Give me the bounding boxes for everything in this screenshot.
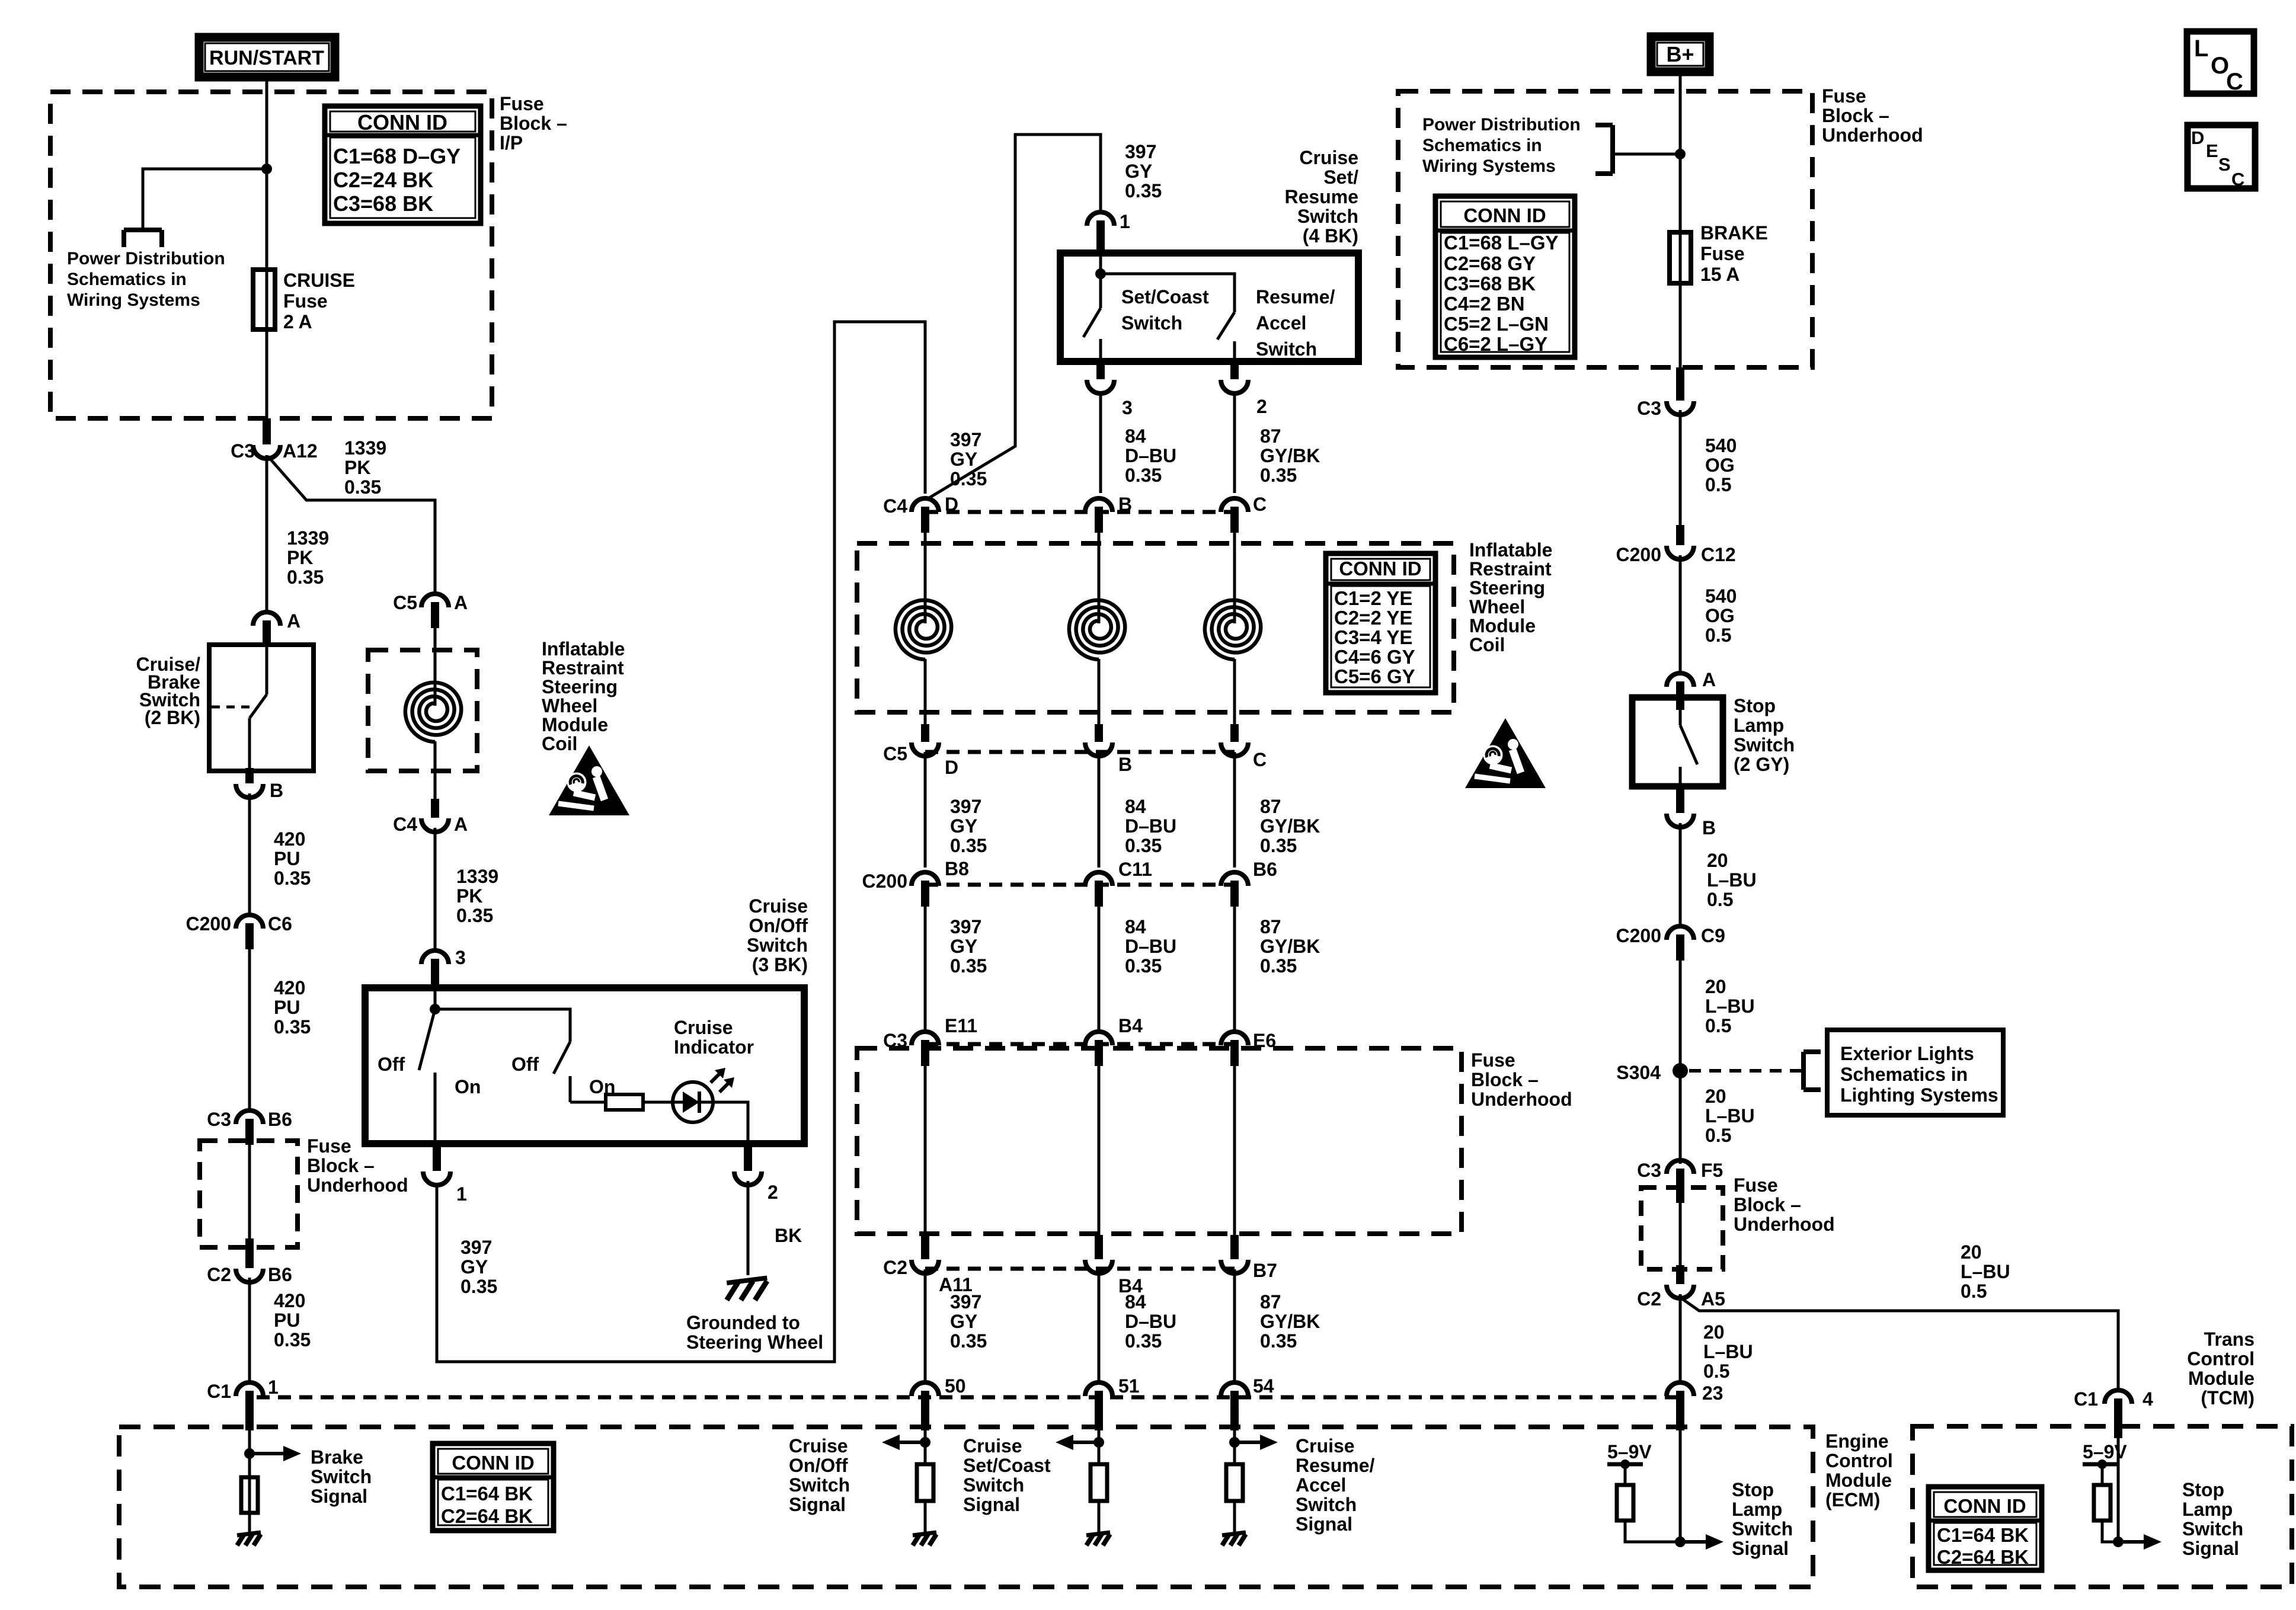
coil left wire lower (434, 741, 437, 800)
svg-text:2: 2 (768, 1182, 778, 1203)
svg-text:Stop: Stop (1734, 695, 1776, 716)
connector 2 (resume/accel) (1221, 380, 1248, 393)
wire B through fuse block (1098, 1066, 1101, 1236)
svg-text:Coil: Coil (542, 733, 577, 754)
svg-text:PU: PU (274, 1310, 300, 1331)
wire C c5-c200 (1233, 752, 1236, 868)
off-page connector (power dist right) (1610, 125, 1615, 174)
coil C wire upper (1233, 533, 1236, 623)
wire B to ECM (1098, 1269, 1101, 1382)
svg-text:15 A: 15 A (1700, 264, 1739, 285)
svg-text:0.35: 0.35 (344, 476, 381, 498)
dashed box fuse block underhood (small right) (1641, 1188, 1723, 1269)
junction set/resume (1095, 268, 1106, 279)
pullup resistor tcm (2094, 1485, 2110, 1521)
svg-text:5–9V: 5–9V (2083, 1441, 2127, 1462)
splice S304 (1673, 1063, 1688, 1078)
svg-text:0.35: 0.35 (950, 955, 987, 977)
svg-text:GY/BK: GY/BK (1260, 445, 1320, 466)
svg-text:C: C (2226, 69, 2243, 95)
airbag warning triangle right (1465, 718, 1546, 788)
fuse CRUISE 2A (253, 270, 275, 329)
resume/accel switch blade (1217, 312, 1235, 340)
svg-text:Control: Control (2187, 1348, 2255, 1369)
wire F5 down (1679, 1203, 1682, 1265)
cruise on/off switch box (365, 988, 804, 1144)
svg-text:(TCM): (TCM) (2201, 1387, 2255, 1409)
svg-text:Resume/: Resume/ (1296, 1455, 1375, 1476)
svg-text:Lighting Systems: Lighting Systems (1840, 1084, 1998, 1106)
resistor brake input (241, 1477, 258, 1513)
svg-text:Lamp: Lamp (1734, 715, 1784, 736)
svg-text:C200: C200 (1616, 544, 1662, 565)
svg-text:Wheel: Wheel (1469, 596, 1525, 617)
svg-text:Fuse: Fuse (283, 290, 328, 312)
svg-text:Schematics in: Schematics in (1840, 1064, 1968, 1085)
connector C200 pin C12 (1667, 546, 1694, 559)
svg-text:B+: B+ (1666, 42, 1694, 66)
svg-text:Switch: Switch (747, 934, 808, 956)
wire B c200-c3 (1098, 907, 1101, 1031)
wire C4A down (434, 828, 437, 950)
dotted connector row C200 (925, 883, 1235, 887)
wire fuse to C3 (1679, 283, 1682, 369)
dashed actuator link (212, 706, 251, 709)
svg-text:C5: C5 (393, 592, 417, 613)
svg-text:Switch: Switch (1732, 1518, 1793, 1539)
svg-text:0.35: 0.35 (274, 868, 311, 889)
connector C5 pin A (421, 594, 449, 607)
svg-text:C6=2 L–GY: C6=2 L–GY (1444, 333, 1547, 355)
wire through fuse (266, 270, 268, 329)
svg-text:4: 4 (2142, 1388, 2153, 1410)
svg-text:B8: B8 (945, 858, 969, 879)
svg-text:Exterior Lights: Exterior Lights (1840, 1043, 1974, 1064)
wire resistor51 to gnd (1098, 1501, 1101, 1532)
svg-text:Stop: Stop (1732, 1479, 1774, 1500)
dotted connector row C4 (925, 510, 1235, 514)
svg-text:1: 1 (456, 1183, 467, 1205)
svg-text:PU: PU (274, 848, 300, 869)
svg-text:Steering: Steering (1469, 577, 1545, 598)
coil B wire upper (1098, 533, 1101, 623)
svg-text:PK: PK (456, 885, 482, 907)
svg-text:B6: B6 (1253, 859, 1277, 880)
svg-text:Wiring Systems: Wiring Systems (1422, 156, 1556, 176)
svg-text:Engine: Engine (1825, 1430, 1889, 1452)
svg-text:397: 397 (950, 429, 981, 450)
svg-text:C4: C4 (393, 814, 417, 835)
svg-text:C1: C1 (207, 1381, 231, 1402)
svg-text:Off: Off (511, 1054, 539, 1075)
connector C200 pin C11 (1085, 872, 1112, 886)
connector C3 pin F5 (1667, 1160, 1694, 1174)
ground brake input (237, 1532, 261, 1535)
svg-text:C200: C200 (186, 913, 232, 934)
svg-text:420: 420 (274, 828, 305, 850)
svg-text:PK: PK (287, 547, 313, 568)
wire to second pole (435, 1009, 570, 1042)
on/off lower contact 1 (434, 1073, 437, 1144)
junction node (261, 164, 272, 174)
connector B stop (1667, 814, 1694, 827)
svg-text:C1=68 D–GY: C1=68 D–GY (333, 144, 461, 168)
connector C3 pin E6 (1221, 1032, 1248, 1045)
svg-text:B: B (270, 780, 283, 801)
svg-text:Signal: Signal (2182, 1538, 2239, 1559)
wire C2 down (248, 1278, 251, 1381)
svg-text:Restraint: Restraint (1469, 558, 1552, 580)
ground steering wheel (727, 1278, 767, 1283)
wire resistor to LED (643, 1101, 674, 1104)
svg-text:23: 23 (1702, 1382, 1723, 1404)
dashed box Fuse Block - I/P (50, 92, 492, 418)
svg-text:Signal: Signal (1732, 1538, 1789, 1559)
svg-text:C1=68 L–GY: C1=68 L–GY (1444, 232, 1559, 254)
pullup node tcm (2097, 1459, 2107, 1469)
svg-text:F5: F5 (1701, 1160, 1723, 1181)
svg-text:L–BU: L–BU (1703, 1341, 1753, 1362)
svg-text:C1: C1 (2074, 1388, 2098, 1410)
svg-text:L–BU: L–BU (1705, 1105, 1755, 1126)
svg-text:Trans: Trans (2204, 1329, 2255, 1350)
svg-text:0.5: 0.5 (1705, 1125, 1731, 1146)
wire C through fuse block (1233, 1066, 1236, 1236)
svg-text:Block –: Block – (500, 113, 567, 134)
svg-text:Inflatable: Inflatable (542, 638, 625, 660)
off-page connector (exterior lights) (1801, 1052, 1806, 1090)
wire pin4 in TCM (2117, 1438, 2120, 1542)
junction on/off (430, 1004, 440, 1014)
svg-text:0.35: 0.35 (274, 1329, 311, 1350)
svg-text:Inflatable: Inflatable (1469, 539, 1552, 561)
svg-text:E11: E11 (945, 1015, 977, 1036)
wire to indicator resistor (570, 1101, 606, 1104)
wire branch to steering coil column (268, 456, 435, 593)
dotted connector row C5 (925, 750, 1235, 754)
svg-text:B7: B7 (1253, 1260, 1277, 1281)
airbag warning triangle left (549, 745, 629, 815)
wire B down (1679, 823, 1682, 926)
svg-text:On/Off: On/Off (789, 1455, 848, 1476)
connector ECM pin 51 (1085, 1382, 1112, 1396)
indicator resistor (606, 1094, 643, 1110)
svg-text:C4=6 GY: C4=6 GY (1334, 646, 1415, 668)
svg-text:87: 87 (1260, 425, 1281, 447)
wire D to ECM (924, 1269, 927, 1382)
connector 3 (on/off switch) (421, 950, 449, 964)
svg-text:1339: 1339 (456, 866, 498, 887)
connector C4 pin D (912, 498, 939, 512)
wire C to ECM (1233, 1269, 1236, 1382)
svg-text:GY: GY (950, 449, 977, 470)
svg-text:0.5: 0.5 (1705, 625, 1731, 646)
svg-text:84: 84 (1125, 425, 1146, 447)
connector TCM C1 pin 4 (2105, 1390, 2132, 1404)
svg-text:C200: C200 (862, 870, 908, 892)
svg-text:Stop: Stop (2182, 1479, 2224, 1500)
junction pin50 (920, 1437, 930, 1448)
wire A5 to 23 (1679, 1294, 1682, 1382)
connector 1 (set/resume switch) (1087, 212, 1114, 226)
svg-text:S: S (2218, 154, 2231, 175)
svg-text:20: 20 (1707, 850, 1728, 871)
svg-text:Switch: Switch (1296, 1494, 1357, 1515)
power feed box B+ (1651, 37, 1709, 72)
coil C spiral (1205, 600, 1261, 660)
svg-text:D–BU: D–BU (1125, 936, 1176, 957)
wire pin51 in ECM (1098, 1430, 1101, 1464)
svg-text:87: 87 (1260, 796, 1281, 817)
svg-text:CONN ID: CONN ID (1339, 558, 1421, 580)
svg-text:397: 397 (950, 796, 981, 817)
svg-text:84: 84 (1125, 1291, 1146, 1313)
svg-text:Resume/: Resume/ (1256, 286, 1335, 308)
wire C3 down to connector A (266, 455, 268, 612)
svg-text:Signal: Signal (311, 1486, 367, 1507)
svg-text:GY: GY (950, 815, 977, 837)
off-page connector symbol (power distribution) (124, 228, 162, 232)
power feed box RUN/START (199, 37, 335, 77)
svg-text:0.35: 0.35 (950, 835, 987, 856)
svg-text:Lamp: Lamp (2182, 1499, 2233, 1520)
svg-text:A: A (1702, 669, 1716, 690)
svg-text:Fuse: Fuse (1471, 1049, 1515, 1071)
arrow stop lamp signal tcm (2118, 1540, 2146, 1544)
connector 3 (set/coast) (1087, 380, 1114, 393)
wire pin3 down (1099, 393, 1102, 493)
svg-text:Control: Control (1825, 1450, 1893, 1471)
svg-text:Lamp: Lamp (1732, 1499, 1782, 1520)
svg-text:(ECM): (ECM) (1825, 1489, 1880, 1510)
svg-text:84: 84 (1125, 916, 1146, 937)
wire into on/off (434, 990, 437, 1009)
CONN ID table (fuse block I/P) (325, 106, 481, 223)
CONN ID table (coil) (1326, 553, 1435, 693)
connector C2 pin B7 (1221, 1260, 1248, 1273)
svg-text:1: 1 (1120, 211, 1130, 232)
connector ECM pin 23 (1667, 1382, 1694, 1396)
svg-text:420: 420 (274, 1290, 305, 1311)
svg-text:0.35: 0.35 (274, 1016, 311, 1038)
dotted connector row C2 (925, 1267, 1235, 1271)
connector C3 pin E11 (912, 1032, 939, 1045)
svg-text:C: C (1253, 749, 1267, 770)
svg-text:C3=68 BK: C3=68 BK (1444, 273, 1536, 295)
connector C200 pin C6 (236, 915, 263, 929)
coil C wire lower (1233, 659, 1236, 724)
wire into set/coast (1099, 251, 1102, 308)
svg-text:Power Distribution: Power Distribution (67, 249, 225, 268)
resistor pin54 (1226, 1464, 1243, 1501)
svg-text:Underhood: Underhood (307, 1174, 408, 1196)
svg-text:Switch: Switch (1734, 734, 1795, 756)
arrow cruise set/coast signal (1071, 1441, 1099, 1444)
svg-text:C1=64 BK: C1=64 BK (1937, 1524, 2029, 1546)
arrow stop lamp signal ecm (1680, 1540, 1708, 1544)
svg-text:OG: OG (1705, 454, 1735, 476)
connector C200 pin B8 (912, 872, 939, 886)
svg-text:CONN ID: CONN ID (1463, 204, 1546, 226)
connector C2 pin B4 (1085, 1260, 1112, 1273)
svg-text:20: 20 (1705, 976, 1726, 997)
svg-text:Fuse: Fuse (500, 93, 544, 114)
wire fuse to connector C3 (266, 273, 268, 425)
svg-text:Signal: Signal (963, 1494, 1020, 1515)
connector B (236, 784, 263, 798)
svg-text:Grounded to: Grounded to (686, 1312, 800, 1333)
svg-text:C: C (1253, 494, 1267, 515)
wire to power dist ref (1613, 153, 1680, 156)
connector C5 pin D (912, 742, 939, 756)
svg-text:0.5: 0.5 (1703, 1361, 1729, 1382)
wire B down (248, 793, 251, 913)
connector C3 pin A12 (253, 445, 280, 459)
junction pin51 (1093, 1437, 1104, 1448)
svg-text:Signal: Signal (789, 1494, 846, 1515)
connector C4 pin C (1221, 498, 1248, 512)
dashed box TCM (1913, 1426, 2292, 1587)
svg-text:GY: GY (950, 1311, 977, 1332)
dotted interface line (ECM pins row) (257, 1395, 1677, 1400)
svg-text:L–BU: L–BU (1705, 996, 1755, 1017)
svg-text:CONN ID: CONN ID (357, 110, 447, 135)
coil left wire upper (434, 628, 437, 706)
coil D spiral (896, 600, 951, 660)
svg-text:Signal: Signal (1296, 1513, 1352, 1535)
svg-text:Steering: Steering (542, 676, 618, 697)
svg-text:I/P: I/P (500, 132, 523, 153)
svg-text:B4: B4 (1118, 1015, 1143, 1036)
coil D wire lower (924, 659, 927, 724)
svg-text:1339: 1339 (287, 527, 329, 549)
svg-text:0.35: 0.35 (1125, 180, 1162, 201)
svg-text:Switch: Switch (311, 1466, 372, 1487)
svg-text:On: On (455, 1076, 481, 1097)
svg-text:A12: A12 (283, 440, 318, 462)
wire inside fuse block (248, 1145, 251, 1238)
svg-text:On/Off: On/Off (749, 915, 808, 936)
on/off switch blade 1 (419, 1009, 435, 1070)
svg-text:0.35: 0.35 (950, 468, 987, 489)
svg-text:C3: C3 (1637, 398, 1661, 419)
svg-text:Block –: Block – (1471, 1069, 1539, 1090)
svg-text:GY: GY (461, 1256, 488, 1278)
svg-text:L: L (2194, 36, 2208, 62)
wire pin2 to ground (747, 1181, 750, 1275)
wire branch to TCM (1681, 1298, 2118, 1390)
svg-text:GY/BK: GY/BK (1260, 936, 1320, 957)
svg-text:C2=24 BK: C2=24 BK (333, 168, 433, 192)
svg-text:Switch: Switch (963, 1474, 1024, 1496)
svg-text:397: 397 (461, 1237, 492, 1258)
svg-text:Set/Coast: Set/Coast (1121, 286, 1209, 308)
svg-text:Switch: Switch (1256, 338, 1317, 360)
svg-text:Accel: Accel (1256, 312, 1306, 334)
svg-text:C200: C200 (1616, 925, 1662, 946)
svg-text:C9: C9 (1701, 925, 1725, 946)
stop lamp switch box (1632, 697, 1723, 786)
svg-text:C3: C3 (231, 440, 255, 462)
svg-text:CRUISE: CRUISE (283, 270, 355, 291)
svg-text:GY: GY (950, 936, 977, 957)
svg-text:Module: Module (1825, 1470, 1892, 1491)
svg-text:RUN/START: RUN/START (209, 47, 324, 69)
svg-text:0.5: 0.5 (1705, 474, 1731, 495)
svg-text:C2=2 YE: C2=2 YE (1334, 607, 1412, 629)
svg-text:Underhood: Underhood (1734, 1214, 1835, 1235)
arrow cruise on/off signal (897, 1441, 925, 1444)
svg-text:0.35: 0.35 (1260, 955, 1297, 977)
svg-text:L–BU: L–BU (1961, 1261, 2010, 1282)
svg-text:OG: OG (1705, 605, 1735, 626)
svg-text:Underhood: Underhood (1471, 1089, 1572, 1110)
svg-text:Coil: Coil (1469, 634, 1505, 655)
ground pin51 (1086, 1532, 1110, 1535)
svg-text:Wiring Systems: Wiring Systems (67, 290, 200, 310)
pullup bar tcm (2083, 1462, 2118, 1467)
svg-text:Wheel: Wheel (542, 695, 597, 716)
svg-text:Resume: Resume (1285, 186, 1359, 207)
ground pin50 (913, 1532, 936, 1535)
svg-text:GY/BK: GY/BK (1260, 1311, 1320, 1332)
dotted connector row C3 (925, 1042, 1235, 1046)
svg-text:D–BU: D–BU (1125, 815, 1176, 837)
svg-text:C4: C4 (883, 495, 907, 517)
svg-text:Block –: Block – (1734, 1194, 1801, 1215)
junction B+ (1675, 149, 1686, 159)
svg-text:Brake: Brake (311, 1446, 363, 1468)
wire pin54 in ECM (1233, 1430, 1236, 1464)
wire to resume switch (1101, 274, 1235, 312)
svg-text:D–BU: D–BU (1125, 445, 1176, 466)
wire B c5-c200 (1098, 752, 1101, 868)
svg-text:Power Distribution: Power Distribution (1422, 115, 1581, 135)
svg-text:C2: C2 (1637, 1288, 1661, 1310)
svg-text:B6: B6 (268, 1109, 292, 1130)
connector C2 pin B6 (236, 1269, 263, 1282)
svg-text:3: 3 (1122, 397, 1133, 418)
pullup node ecm (1620, 1459, 1630, 1469)
cruise/brake switch box (209, 645, 314, 771)
svg-text:5–9V: 5–9V (1607, 1441, 1652, 1462)
svg-text:C5: C5 (883, 743, 907, 764)
svg-text:Module: Module (542, 714, 608, 735)
pullup wire ecm (1624, 1464, 1627, 1485)
coil left spiral (405, 683, 461, 742)
connector C3 pin B4 (1085, 1032, 1112, 1045)
svg-text:0.35: 0.35 (461, 1276, 497, 1297)
connector C4 pin B (1085, 498, 1112, 512)
dashed box steering wheel coil (left) (368, 650, 477, 771)
svg-text:Switch: Switch (1121, 312, 1182, 334)
svg-text:Schematics in: Schematics in (1422, 136, 1542, 155)
connector A (stop lamp switch) (1667, 673, 1694, 687)
dashed box ECM (119, 1427, 1813, 1587)
stop lamp switch blade (1679, 710, 1682, 725)
svg-text:54: 54 (1253, 1375, 1274, 1397)
svg-text:Accel: Accel (1296, 1474, 1346, 1496)
svg-text:D–BU: D–BU (1125, 1311, 1176, 1332)
dashed ref to exterior lights (1689, 1069, 1801, 1073)
resistor pin51 (1091, 1464, 1107, 1501)
arrow brake switch signal (250, 1452, 286, 1455)
svg-text:C5=2 L–GN: C5=2 L–GN (1444, 313, 1549, 335)
svg-text:Indicator: Indicator (674, 1036, 754, 1058)
junction pin54 (1229, 1437, 1240, 1448)
connector A (cruise/brake switch) (253, 612, 280, 626)
dashed box fuse block underhood (right) (1398, 91, 1812, 367)
